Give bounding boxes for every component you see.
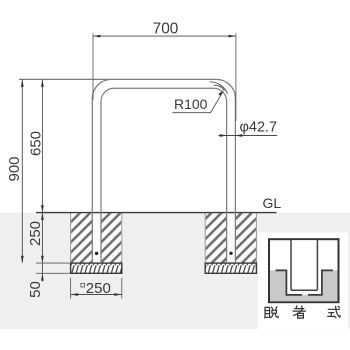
dimension 250 arrows xyxy=(41,213,44,220)
svg-text:900: 900 xyxy=(6,156,23,181)
svg-text:250: 250 xyxy=(86,280,111,297)
foundation block right hatching xyxy=(206,213,227,263)
dimension 700 line xyxy=(93,35,236,37)
inset sleeve outline right xyxy=(308,270,333,295)
R100 leader arrow xyxy=(218,91,223,96)
pipe arch outer outline (with left extension line to dims) xyxy=(19,79,235,263)
foundation block left hatching xyxy=(71,213,92,263)
dimension 700 arrows xyxy=(93,35,100,38)
phi 42.7 arrows xyxy=(220,134,227,137)
dimension square-250 line xyxy=(71,294,122,296)
inset sleeve outline left xyxy=(276,270,302,295)
dimension 250 text xyxy=(27,221,44,246)
anchor dot left pipe xyxy=(95,252,98,255)
GL line xyxy=(36,212,277,214)
inset pipe white fill xyxy=(292,240,317,289)
svg-text:R100: R100 xyxy=(174,96,208,112)
bend emphasis arc 2 (top-right corner) xyxy=(214,85,225,91)
kanji shiki (type) xyxy=(328,306,341,317)
dimension square symbol xyxy=(81,283,85,287)
anchor dot right pipe xyxy=(229,252,232,255)
foundation block left side borders xyxy=(71,213,122,264)
svg-text:700: 700 xyxy=(153,20,179,37)
bend emphasis arc 1 (top-right corner) xyxy=(210,82,228,94)
dimension 900 arrows xyxy=(21,80,24,87)
dimension 50 line and outside arrow xyxy=(41,263,43,281)
kanji datsu (removable) xyxy=(265,307,279,318)
R100 leader line xyxy=(172,92,222,113)
gravel strip right xyxy=(205,263,256,273)
foundation block right (white body) xyxy=(205,213,256,264)
dimension 900 line xyxy=(21,80,23,263)
dimension 900 text xyxy=(6,156,23,181)
dimension 650 arrows xyxy=(41,80,44,87)
foundation block left (white body) xyxy=(71,213,122,264)
inset pipe outline xyxy=(291,240,317,291)
svg-text:φ42.7: φ42.7 xyxy=(240,120,278,136)
foundation block right side borders xyxy=(205,213,256,264)
phi 42.7 leader line xyxy=(219,135,278,137)
dimension 50 extension lines xyxy=(36,263,71,273)
inset box border xyxy=(269,239,339,302)
dimension square-250 arrows xyxy=(71,293,78,296)
inset ground gray fill xyxy=(270,270,338,301)
dimension 650 line xyxy=(41,80,43,213)
gravel strip left xyxy=(71,263,122,273)
dimension square-250 (bottom of left block) extension lines xyxy=(71,278,122,299)
dimension 50 text xyxy=(27,281,44,298)
ground (soil band below GL) xyxy=(0,213,350,329)
svg-text:250: 250 xyxy=(27,221,44,246)
pipe arch inner outline xyxy=(101,88,227,263)
svg-text:GL: GL xyxy=(263,195,282,211)
dimension 700 extension lines xyxy=(93,33,236,121)
inset sleeve white channel xyxy=(287,270,321,294)
kanji chaku (attach) xyxy=(293,306,305,318)
svg-text:650: 650 xyxy=(28,131,45,156)
dimension 650 text xyxy=(28,131,45,156)
dimension 250 line (left, below GL) xyxy=(41,213,43,263)
svg-text:50: 50 xyxy=(27,281,44,298)
inset white panel xyxy=(258,233,348,329)
